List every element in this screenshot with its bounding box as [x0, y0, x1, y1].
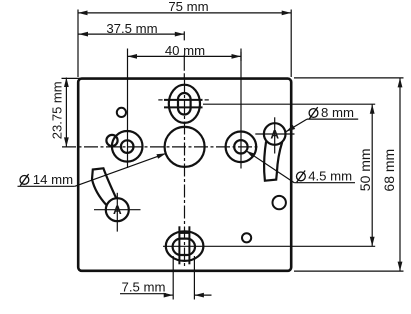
dim 7.5 mm arrow right — [194, 294, 211, 296]
small hole top left — [117, 108, 126, 117]
keyhole A right centerline vertical — [274, 117, 276, 153]
svg-text:7.5 mm: 7.5 mm — [122, 280, 166, 295]
dim 7.5 mm arrow left — [166, 294, 173, 296]
bottom slot cross line right — [188, 226, 190, 264]
dim 23.75 mm line — [65, 78, 67, 147]
top slot cross line upper — [164, 99, 203, 101]
dim 75 mm line — [78, 12, 291, 14]
dim 50 mm line — [371, 104, 373, 246]
dim 68 mm line — [399, 78, 401, 271]
bottom slot chord — [179, 232, 189, 234]
dim 40 mm extension left — [127, 49, 129, 169]
svg-text:A: A — [113, 203, 122, 217]
top slot inner obround — [178, 93, 191, 115]
dim 68 mm extension top — [294, 77, 404, 79]
dim 75 mm extension right — [290, 10, 292, 78]
small hole right — [273, 196, 286, 209]
keyhole slot A left circle — [106, 198, 129, 221]
svg-text:75 mm: 75 mm — [168, 0, 208, 14]
dim 37.5 mm tick and centerline above part — [183, 31, 185, 79]
right hole counterbore — [226, 132, 257, 163]
leader Ø8 underline — [307, 118, 358, 120]
bottom slot outer boss — [166, 231, 204, 261]
keyhole A left centerline horizontal — [94, 209, 141, 211]
dim 50 mm extension top — [203, 103, 375, 105]
svg-text:68 mm: 68 mm — [381, 149, 397, 192]
top slot cross line dashes — [158, 99, 162, 101]
centerline vertical through part center — [184, 80, 186, 268]
dim 75 mm extension left — [77, 10, 79, 78]
dim 7.5 mm extension left — [172, 256, 174, 300]
leader Ø8 line — [286, 119, 307, 132]
right hole inner Ø4.5 — [234, 140, 247, 153]
svg-text:37.5 mm: 37.5 mm — [106, 21, 157, 36]
leader Ø4.5 underline — [294, 182, 355, 184]
svg-text:8 mm: 8 mm — [321, 105, 354, 120]
keyhole slot A right circle — [264, 123, 286, 145]
svg-text:14 mm: 14 mm — [33, 172, 73, 187]
svg-text:40 mm: 40 mm — [165, 43, 205, 58]
leader Ø4.5 symbol — [297, 172, 306, 181]
dim 7.5 mm underline — [120, 293, 166, 295]
left hole side notch — [106, 135, 117, 146]
svg-text:A: A — [270, 128, 279, 142]
dim 50 mm extension bottom — [163, 245, 375, 247]
keyhole A right centerline horizontal — [255, 133, 294, 135]
leader Ø14 underline — [18, 185, 75, 187]
dim 23.75 mm extension top — [62, 77, 81, 79]
part outline plate 75x68 mm — [78, 79, 291, 271]
dim 40 mm tick — [240, 52, 242, 61]
svg-text:23.75 mm: 23.75 mm — [49, 81, 64, 139]
top slot outer boss — [169, 85, 200, 123]
dim 68 mm extension bottom — [294, 270, 404, 272]
leader Ø4.5 line — [246, 151, 294, 183]
svg-text:4.5 mm: 4.5 mm — [308, 168, 352, 183]
leader Ø8 symbol — [309, 109, 318, 118]
dim 40 mm extension right — [240, 49, 242, 169]
bottom slot cross line left — [178, 226, 180, 264]
left hole inner — [121, 140, 134, 153]
svg-text:50 mm: 50 mm — [357, 148, 373, 191]
dim 37.5 mm line — [79, 33, 185, 35]
left hole counterbore — [112, 131, 143, 162]
leader Ø14 line — [75, 153, 166, 186]
small hole bottom — [242, 233, 251, 242]
keyhole slot A left tail — [92, 168, 116, 205]
top slot cross line lower — [164, 106, 203, 108]
centerline horizontal through hole row — [62, 146, 258, 148]
dim 40 mm line — [128, 55, 242, 57]
dim 7.5 mm extension right — [193, 256, 195, 300]
keyhole A left centerline vertical — [116, 193, 118, 232]
bottom slot inner obround — [173, 239, 195, 255]
leader Ø14 symbol — [20, 176, 29, 185]
hole center Ø14 — [165, 127, 205, 167]
keyhole slot A right tail — [264, 141, 282, 180]
